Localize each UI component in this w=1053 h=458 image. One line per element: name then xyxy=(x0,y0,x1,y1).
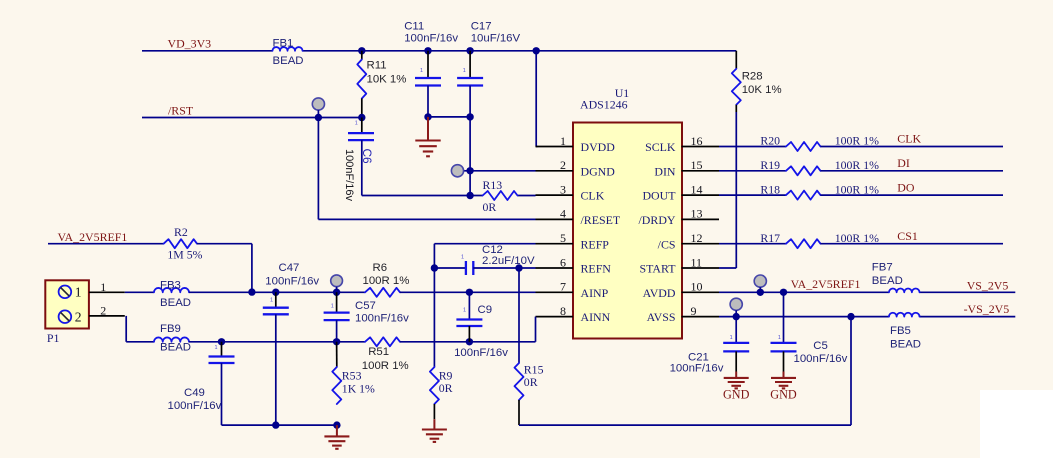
node junction AVDD via xyxy=(757,289,764,296)
ground digital xyxy=(415,117,440,156)
capacitor C57 xyxy=(324,292,350,342)
label R17 xyxy=(760,231,879,245)
svg-text:10: 10 xyxy=(691,280,703,294)
svg-text:R28: R28 xyxy=(742,70,763,82)
svg-text:FB5: FB5 xyxy=(890,325,911,337)
svg-text:9: 9 xyxy=(691,304,697,318)
label FB9 xyxy=(160,323,191,354)
label U1 xyxy=(580,86,629,111)
wire DGND run xyxy=(458,117,536,196)
label C5 xyxy=(778,335,848,365)
svg-text:2: 2 xyxy=(560,158,566,172)
svg-text:0R: 0R xyxy=(483,200,497,214)
resistor R51 xyxy=(365,337,400,346)
op-amp U1 body xyxy=(573,123,682,339)
capacitor C21 xyxy=(723,317,749,372)
svg-text:3: 3 xyxy=(560,182,566,196)
node junction C9 top xyxy=(466,289,473,296)
svg-text:1: 1 xyxy=(355,121,358,127)
svg-text:GND: GND xyxy=(770,388,797,402)
capacitor C47 xyxy=(263,292,289,425)
node junction C9 bottom xyxy=(466,338,473,345)
svg-text:8: 8 xyxy=(560,304,566,318)
svg-text:VS_2V5: VS_2V5 xyxy=(967,279,1009,293)
svg-text:/CS: /CS xyxy=(658,237,676,251)
svg-text:5: 5 xyxy=(560,231,566,245)
resistor R18 xyxy=(786,191,821,200)
svg-text:DIN: DIN xyxy=(654,164,676,178)
ferrite bead FB1 xyxy=(273,47,303,51)
node junction C11 top xyxy=(424,47,431,54)
node junction C12 left xyxy=(431,264,438,271)
wire P1 pin2 to FB9 xyxy=(126,316,154,342)
node junction C47 top xyxy=(272,289,279,296)
svg-text:1K 1%: 1K 1% xyxy=(342,381,375,395)
svg-text:1: 1 xyxy=(270,298,273,304)
wire /RESET run xyxy=(318,118,535,220)
svg-text:11: 11 xyxy=(691,255,703,269)
power ground GND C5 xyxy=(770,372,797,402)
node junction C49 top xyxy=(218,338,225,345)
svg-text:100R 1%: 100R 1% xyxy=(362,360,409,372)
resistor R13 xyxy=(483,191,518,200)
svg-text:R51: R51 xyxy=(368,346,389,358)
svg-text:AINN: AINN xyxy=(581,310,611,324)
svg-text:16: 16 xyxy=(691,134,703,148)
ferrite bead FB5 xyxy=(889,313,920,317)
net label VS_2V5 xyxy=(967,279,1009,293)
wire VA ref xyxy=(48,243,164,245)
svg-text:2: 2 xyxy=(100,304,106,318)
svg-text:AVDD: AVDD xyxy=(643,286,676,300)
svg-text:CLK: CLK xyxy=(897,132,921,146)
svg-text:BEAD: BEAD xyxy=(273,55,304,67)
wire DVDD drop xyxy=(536,51,537,147)
node junction C12 right xyxy=(515,264,522,271)
wire CLK row xyxy=(362,195,536,197)
label P1 xyxy=(47,331,60,345)
svg-text:/RST: /RST xyxy=(168,104,194,118)
ferrite bead FB3 xyxy=(154,288,189,292)
via C57 xyxy=(331,275,343,292)
svg-text:BEAD: BEAD xyxy=(160,297,191,309)
svg-text:DOUT: DOUT xyxy=(642,189,676,203)
node junction C17 bottom xyxy=(466,113,473,120)
svg-text:BEAD: BEAD xyxy=(872,275,903,287)
svg-text:1: 1 xyxy=(420,68,423,74)
label R11 xyxy=(367,60,407,86)
label R2 xyxy=(167,225,202,261)
svg-text:100nF/16v: 100nF/16v xyxy=(168,400,222,412)
label R19 xyxy=(760,158,879,172)
node junction R13 row xyxy=(466,192,473,199)
ferrite bead FB7 xyxy=(889,288,920,292)
label R51 xyxy=(362,346,409,372)
svg-text:/DRDY: /DRDY xyxy=(639,213,676,227)
net label VD_3V3 xyxy=(168,37,212,51)
svg-text:R13: R13 xyxy=(483,178,503,192)
wire DI left xyxy=(719,170,786,172)
resistor R28 xyxy=(732,51,741,112)
svg-text:1: 1 xyxy=(100,280,106,294)
svg-text:100nF/16v: 100nF/16v xyxy=(355,313,409,325)
svg-text:C17: C17 xyxy=(471,21,492,33)
P1 screw 2 xyxy=(59,310,72,323)
svg-text:C11: C11 xyxy=(404,21,424,33)
P1 pad numbers xyxy=(75,285,82,325)
svg-text:14: 14 xyxy=(691,182,703,196)
label C21 xyxy=(670,335,733,375)
P1 pin stub numbers xyxy=(100,280,106,318)
resistor R9 xyxy=(430,367,439,404)
svg-text:R17: R17 xyxy=(760,231,780,245)
svg-text:DO: DO xyxy=(897,180,915,194)
resistor R15 xyxy=(515,363,524,400)
label R15 xyxy=(524,363,544,389)
node junction C5 top xyxy=(780,289,787,296)
wire FB9 to R51 xyxy=(189,341,365,343)
label C47 xyxy=(265,262,319,304)
svg-text:10K 1%: 10K 1% xyxy=(367,74,407,86)
svg-text:/RESET: /RESET xyxy=(581,213,621,227)
label C11 xyxy=(404,21,458,75)
net label CLK xyxy=(897,132,921,146)
svg-text:1: 1 xyxy=(75,285,82,300)
wire REFN drop R15 xyxy=(518,268,520,363)
label FB5 xyxy=(890,325,921,351)
svg-text:DI: DI xyxy=(897,156,910,170)
label R28 xyxy=(742,70,782,96)
connector P1 body xyxy=(45,280,89,328)
svg-text:BEAD: BEAD xyxy=(160,342,191,354)
wire FB3 to R6 xyxy=(189,291,365,293)
svg-text:100R 1%: 100R 1% xyxy=(363,275,410,287)
ground analog R53 xyxy=(324,425,349,449)
svg-text:1: 1 xyxy=(778,335,781,341)
capacitor C49 xyxy=(209,342,235,425)
svg-text:FB3: FB3 xyxy=(160,279,181,291)
svg-text:VA_2V5REF1: VA_2V5REF1 xyxy=(58,230,128,244)
wire AVDD row xyxy=(719,291,1015,293)
wire AINN xyxy=(400,317,536,342)
svg-text:CLK: CLK xyxy=(581,189,605,203)
svg-text:C9: C9 xyxy=(478,304,493,316)
ferrite bead FB9 xyxy=(154,337,189,341)
svg-text:C57: C57 xyxy=(355,300,376,312)
svg-text:REFN: REFN xyxy=(581,262,612,276)
resistor R11 xyxy=(357,51,366,118)
svg-text:4: 4 xyxy=(560,207,566,221)
svg-text:CS1: CS1 xyxy=(897,229,918,243)
wire CLK right xyxy=(821,146,1004,148)
resistor R53 xyxy=(332,342,341,404)
svg-text:6: 6 xyxy=(560,255,566,269)
svg-text:VD_3V3: VD_3V3 xyxy=(168,37,212,51)
node junction C57 top xyxy=(333,289,340,296)
wire REFP row xyxy=(434,243,535,245)
svg-text:12: 12 xyxy=(691,231,703,245)
resistor R20 xyxy=(786,142,821,151)
node junction /RST branch xyxy=(315,114,322,121)
wire AINP xyxy=(400,291,536,293)
wire DO left xyxy=(719,194,786,196)
svg-text:15: 15 xyxy=(691,158,703,172)
svg-text:DGND: DGND xyxy=(581,164,616,178)
svg-text:FB9: FB9 xyxy=(160,323,181,335)
svg-text:1: 1 xyxy=(560,134,566,148)
svg-text:100R 1%: 100R 1% xyxy=(835,182,879,196)
svg-text:10uF/16V: 10uF/16V xyxy=(471,33,521,45)
U1 pin numbers xyxy=(560,134,703,318)
svg-text:R19: R19 xyxy=(760,158,780,172)
label C12 xyxy=(461,244,535,267)
net label -VS_2V5 xyxy=(964,302,1010,316)
via near /RST xyxy=(312,98,324,118)
white page corner xyxy=(980,390,1053,458)
wire DO right xyxy=(821,194,1004,196)
net label VA_2V5REF1 left xyxy=(58,230,128,244)
svg-text:100R 1%: 100R 1% xyxy=(835,231,879,245)
label R6 xyxy=(363,262,410,287)
wire /RST xyxy=(142,117,362,119)
svg-text:FB7: FB7 xyxy=(872,261,893,273)
svg-text:VA_2V5REF1: VA_2V5REF1 xyxy=(791,277,861,291)
svg-text:0R: 0R xyxy=(439,381,453,395)
capacitor C12 xyxy=(434,261,535,275)
svg-text:R2: R2 xyxy=(174,225,188,239)
wire cap bottom row xyxy=(428,116,470,118)
label FB7 xyxy=(872,261,903,287)
svg-text:10K 1%: 10K 1% xyxy=(742,84,782,96)
net label DO xyxy=(897,180,915,194)
wire AVSS row xyxy=(719,316,1015,318)
label R53 xyxy=(342,369,375,396)
label C6 pin1 mark xyxy=(355,121,358,127)
label C57 xyxy=(331,300,409,325)
svg-text:R20: R20 xyxy=(760,134,780,148)
capacitor C17 xyxy=(457,51,483,117)
wire DI right xyxy=(821,170,1004,172)
svg-text:GND: GND xyxy=(723,388,750,402)
U1 pin names xyxy=(581,140,677,324)
wire P1 pin1 to FB3 xyxy=(125,291,154,293)
wire R15 to rail xyxy=(519,400,851,425)
wire CS1 right xyxy=(821,243,1004,245)
via AVSS xyxy=(730,298,742,316)
node junction C47 bottom xyxy=(272,421,279,428)
svg-text:2: 2 xyxy=(75,309,82,324)
label R18 xyxy=(760,182,879,196)
capacitor C5 xyxy=(771,292,797,371)
svg-text:100R 1%: 100R 1% xyxy=(835,134,879,148)
capacitor C11 xyxy=(415,51,441,117)
svg-text:C6: C6 xyxy=(360,149,374,165)
svg-text:100nF/16v: 100nF/16v xyxy=(794,353,848,365)
resistor R17 xyxy=(786,239,821,248)
node junction DGND xyxy=(466,167,473,174)
wire R2 to AINP xyxy=(197,244,252,292)
svg-text:1: 1 xyxy=(461,255,464,261)
node junction R53 bottom xyxy=(333,421,340,428)
svg-text:7: 7 xyxy=(560,280,566,294)
resistor R2 xyxy=(164,239,197,248)
P1 pin stubs xyxy=(89,292,125,316)
svg-text:1: 1 xyxy=(331,304,334,310)
node junction C11 bottom xyxy=(424,113,431,120)
svg-text:1M 5%: 1M 5% xyxy=(167,248,202,262)
svg-text:DVDD: DVDD xyxy=(581,140,616,154)
svg-text:P1: P1 xyxy=(47,331,60,345)
svg-text:100nF/16v: 100nF/16v xyxy=(265,276,319,288)
wire R28 to START xyxy=(719,112,736,268)
resistor R19 xyxy=(786,166,821,175)
svg-text:100R 1%: 100R 1% xyxy=(835,158,879,172)
label R13 xyxy=(483,178,503,214)
node junction C17 top xyxy=(466,47,473,54)
wire VD_3V3 rail xyxy=(142,50,736,52)
resistor R6 xyxy=(365,288,400,297)
wire REFP drop xyxy=(433,244,435,367)
via AVDD xyxy=(754,275,766,292)
svg-text:1: 1 xyxy=(463,68,466,74)
label C17 xyxy=(463,21,521,75)
net label VA_2V5REF1 right xyxy=(791,277,861,291)
svg-text:R18: R18 xyxy=(760,182,780,196)
svg-text:ADS1246: ADS1246 xyxy=(580,97,628,111)
node junction R11 top xyxy=(358,47,365,54)
svg-text:1: 1 xyxy=(463,308,466,314)
svg-text:BEAD: BEAD xyxy=(890,338,921,350)
wire CLK left xyxy=(719,146,786,148)
ground analog R9 xyxy=(422,404,447,442)
node junction R11 C6 xyxy=(358,114,365,121)
P1 screw 1 xyxy=(59,286,72,299)
svg-text:AVSS: AVSS xyxy=(647,310,676,324)
svg-text:SCLK: SCLK xyxy=(645,140,676,154)
label C9 xyxy=(454,304,508,359)
node junction C21 top xyxy=(733,313,740,320)
label R20 xyxy=(760,134,879,148)
svg-text:FB1: FB1 xyxy=(273,38,294,50)
via DGND xyxy=(451,165,463,177)
svg-text:R6: R6 xyxy=(373,262,388,274)
wire AVSS to bottom rail xyxy=(850,317,852,426)
node junction AVSS rail xyxy=(847,313,854,320)
node junction C57 bottom xyxy=(333,338,340,345)
net label CS1 xyxy=(897,229,918,243)
svg-text:START: START xyxy=(640,262,677,276)
svg-text:0R: 0R xyxy=(524,375,538,389)
wire CS1 left xyxy=(719,243,786,245)
net label DI xyxy=(897,156,910,170)
svg-text:100nF/16v: 100nF/16v xyxy=(670,363,724,375)
svg-text:-VS_2V5: -VS_2V5 xyxy=(964,302,1010,316)
svg-text:C5: C5 xyxy=(813,340,828,352)
power ground GND C21 xyxy=(723,372,750,402)
label FB3 xyxy=(160,279,191,309)
svg-text:2.2uF/10V: 2.2uF/10V xyxy=(482,255,535,267)
wire bottom left rail xyxy=(222,424,337,426)
svg-text:AINP: AINP xyxy=(581,286,609,300)
label C49 xyxy=(168,345,222,412)
node junction R2 drop xyxy=(248,288,255,295)
node junction DVDD branch xyxy=(533,47,540,54)
svg-text:100nF/16v: 100nF/16v xyxy=(404,33,458,45)
svg-text:1: 1 xyxy=(215,345,218,351)
capacitor C9 xyxy=(456,292,482,342)
label R9 xyxy=(439,369,453,395)
svg-text:R11: R11 xyxy=(367,60,387,72)
svg-text:REFP: REFP xyxy=(581,237,610,251)
svg-text:1: 1 xyxy=(730,335,733,341)
label C6 xyxy=(343,149,374,202)
svg-text:C47: C47 xyxy=(279,262,300,274)
U1 pin stubs xyxy=(536,147,720,317)
net label /RST xyxy=(168,104,194,118)
svg-text:100nF/16v: 100nF/16v xyxy=(343,149,355,201)
label FB1 xyxy=(273,38,304,68)
svg-text:13: 13 xyxy=(691,207,703,221)
svg-text:100nF/16v: 100nF/16v xyxy=(454,347,508,359)
svg-text:C49: C49 xyxy=(184,387,205,399)
capacitor C6 xyxy=(348,118,374,196)
